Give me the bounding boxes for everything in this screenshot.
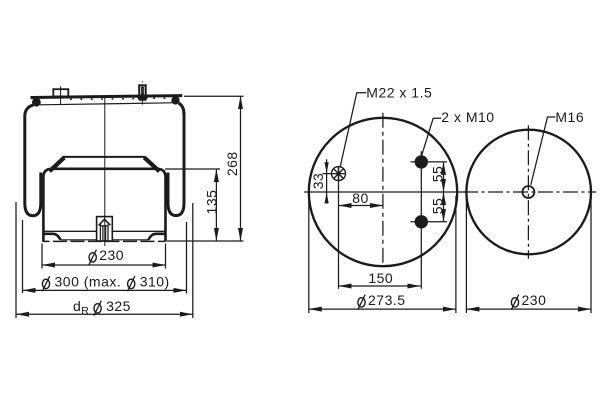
svg-text:150: 150	[368, 270, 393, 286]
stud inner slot	[141, 87, 143, 94]
dim 325 extension line left	[15, 202, 17, 318]
dim 135 dimension line	[215, 169, 217, 241]
svg-text:d: d	[73, 298, 81, 314]
piston body	[43, 169, 165, 242]
leader M16 label	[531, 117, 556, 185]
svg-text:M16: M16	[555, 109, 584, 125]
dim 268 extension line top	[184, 95, 244, 97]
label dia 230 right	[511, 292, 546, 310]
bottom plate fold right	[148, 234, 165, 240]
dim 230r extension line right	[590, 196, 592, 313]
M22 vertical extension down to 150 dim	[338, 167, 340, 289]
dim 300 extension line right	[186, 222, 188, 294]
piston trapezoid right slant	[145, 157, 157, 169]
svg-text:230: 230	[99, 247, 124, 263]
right circle	[466, 130, 591, 255]
dim 230 dimension line	[42, 264, 166, 266]
horizontal center line (solid)	[304, 191, 466, 193]
svg-text:55: 55	[430, 166, 446, 183]
stud center line and dot	[141, 81, 143, 104]
bolt M10 lower (filled)	[411, 215, 448, 228]
bottom bolt outer housing	[97, 217, 113, 241]
right circle vertical center line (dash-dot)	[527, 125, 529, 258]
air fitting body	[53, 89, 68, 96]
air fitting center line	[60, 86, 62, 104]
dim 55 lower segment	[443, 192, 445, 222]
bottom plate middle upper line	[61, 239, 149, 241]
svg-text:273.5: 273.5	[368, 292, 406, 308]
bottom bolt stud with threads	[100, 224, 108, 241]
bead right (rolled edge)	[171, 96, 179, 104]
label dia 300 (max. dia 310)	[42, 274, 169, 292]
svg-text:R: R	[81, 305, 89, 317]
dim 268/135 extension line bottom	[167, 240, 244, 242]
bottom plate bottom line (dashed middle)	[43, 240, 166, 242]
dim 300 extension line left	[22, 220, 24, 293]
svg-text:80: 80	[352, 190, 369, 206]
dim 230r extension line left	[465, 196, 467, 313]
dim 268 dimension line	[240, 96, 242, 241]
piston trapezoid left slant	[52, 157, 64, 169]
top plate top surface (thick)	[31, 96, 183, 98]
M16 hole circle	[522, 186, 534, 198]
piston right corner wedge (filled)	[144, 158, 159, 172]
svg-text:310): 310)	[140, 274, 170, 290]
right circle horizontal center line (dash-dot)	[463, 191, 596, 193]
dim 325 extension line right	[192, 203, 194, 318]
dim 273.5 dimension line	[309, 308, 456, 310]
dim 273.5 extension line right	[455, 196, 457, 313]
bellows outer wall left	[25, 105, 41, 216]
dim 300 dimension line	[23, 289, 187, 291]
M22 horizontal tick (33 extension)	[323, 173, 347, 175]
label dR dia 325	[73, 298, 131, 317]
center line of side view	[104, 96, 106, 247]
top plate underside line	[40, 103, 172, 105]
bottom plate top rim line	[43, 230, 166, 232]
svg-text:268: 268	[224, 151, 240, 176]
bead left (rolled edge)	[32, 98, 41, 107]
dim 55 upper segment	[443, 162, 445, 192]
bottom plate fold left	[43, 234, 60, 240]
bottom bolt chevron	[99, 219, 111, 225]
dim 273.5 extension line left	[308, 196, 310, 313]
dim 230 extension line left	[41, 244, 43, 269]
dim 135 extension line	[165, 168, 220, 170]
svg-text:2 x M10: 2 x M10	[441, 109, 494, 125]
vertical center line (dashed)	[382, 113, 384, 267]
svg-text:300 (max.: 300 (max.	[55, 274, 122, 290]
svg-text:M22 x 1.5: M22 x 1.5	[366, 84, 432, 100]
dim 230 extension line right	[165, 244, 167, 269]
svg-text:135: 135	[204, 190, 220, 215]
dim 230r dimension line	[466, 308, 591, 310]
piston trapezoid top	[63, 156, 145, 158]
bolt M10 upper (filled)	[411, 151, 448, 288]
stud body	[139, 85, 146, 96]
dim 33 dimension line	[326, 159, 328, 203]
leader M22 label	[340, 93, 366, 167]
middle circle	[309, 118, 457, 266]
dim 150 dimension line	[339, 285, 421, 287]
stud base flange (filled)	[137, 97, 149, 101]
dim 33 arrow bottom (outside, pointing up)	[325, 192, 329, 203]
dim 33 arrow top (outside, pointing down)	[325, 162, 329, 173]
top plate weld dots	[70, 98, 171, 99]
svg-text:325: 325	[106, 298, 131, 314]
label dia 273.5	[358, 292, 406, 310]
svg-text:55: 55	[430, 198, 446, 215]
svg-text:230: 230	[522, 292, 547, 308]
bellows outer wall right	[168, 103, 184, 215]
dim 325 dimension line	[16, 313, 193, 315]
svg-text:33: 33	[310, 173, 326, 190]
M22 port symbol	[332, 167, 346, 181]
dim 80 dimension line	[339, 205, 384, 207]
piston left corner wedge (filled)	[50, 158, 65, 172]
leader 2xM10 label	[422, 118, 442, 155]
label dia 230 left view	[89, 247, 124, 265]
